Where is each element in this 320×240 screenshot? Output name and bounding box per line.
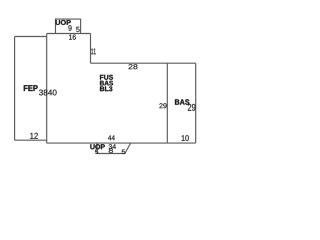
label BAS: [100, 81, 113, 86]
dim 38 40: [39, 90, 57, 96]
label FUS: [100, 75, 113, 80]
label BAS right: [175, 99, 189, 104]
dim 5 bottom right: [122, 150, 125, 154]
label BL3: [100, 86, 112, 91]
dim 5 bottom left: [95, 150, 98, 154]
wall dim 11: [90, 34, 92, 64]
dim 8: [109, 148, 113, 153]
label UOP bottom (porch): [90, 144, 104, 149]
upper porch UOP box: [56, 19, 81, 33]
dim 9: [68, 25, 71, 31]
dim 29 right: [188, 104, 196, 111]
dim 12: [30, 133, 38, 139]
dim 44: [108, 135, 115, 140]
dim 28: [128, 64, 137, 69]
dim 5 (upper porch): [76, 27, 79, 32]
right wall: [195, 63, 197, 143]
FEP left wall: [14, 37, 16, 141]
middle wall: [166, 63, 168, 143]
label UOP top (porch): [56, 20, 71, 25]
dim 10: [182, 135, 189, 141]
top wall: [47, 33, 91, 35]
dim 34: [109, 144, 116, 149]
FUS top wall: [91, 62, 196, 64]
label FEP: [24, 85, 38, 91]
dim 29 left: [159, 103, 166, 108]
FEP top wall: [15, 36, 47, 38]
bottom wall: [47, 142, 196, 144]
dim 11: [91, 48, 96, 54]
divider wall FEP/main: [46, 34, 48, 144]
bottom porch UOP outline: [97, 143, 131, 153]
FEP bottom wall: [15, 139, 47, 141]
dim 16: [69, 34, 76, 39]
